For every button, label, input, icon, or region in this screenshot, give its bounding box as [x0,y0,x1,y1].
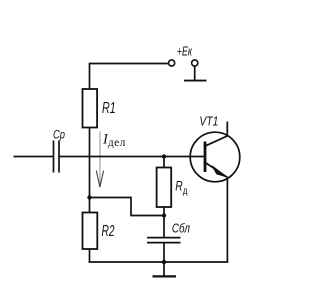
svg-text:Ср: Ср [53,128,65,141]
terminal circle: +Ek post [192,60,198,66]
wire: base wire from Cp to VT1 base [59,156,204,158]
capacitor Cbl bottom plate [147,242,181,244]
transistor VT1 base bar [204,142,207,173]
capacitor Cp right plate [58,141,60,173]
svg-text:R1: R1 [102,99,116,117]
+Ek post stem [194,66,196,80]
capacitor Cbl top plate [147,237,181,239]
wire: Cbl top lead [163,216,165,238]
junction: divider tap node [87,195,91,199]
wire: input lead to Cp [14,156,54,158]
wire: R1 top to +Ek terminal [90,64,169,90]
wire: R2 bottom to ground rail [89,249,91,262]
resistor R1 [83,89,98,128]
ground symbol bar [153,275,177,277]
resistor Rd [157,168,172,208]
transistor VT1 collector lead [206,122,228,146]
+Ek post bar [184,80,207,82]
svg-text:Сбл: Сбл [172,222,191,235]
wire: Rd top lead [163,157,165,168]
terminal circle: supply wire end [169,60,175,66]
transistor VT1 body [190,132,240,182]
wire: ground rail [89,261,229,263]
svg-text:R2: R2 [102,222,116,240]
resistor R2 [83,213,98,250]
junction: Rd / Cbl node [162,213,166,217]
capacitor Cp left plate [53,141,55,173]
junction: base wire to Rd [162,154,166,158]
svg-text:VT1: VT1 [199,116,218,129]
wire: divider tap to Rd/Cbl node [90,198,165,216]
svg-text:+Eк: +Eк [177,45,193,59]
current arrow Idel head [96,171,103,188]
junction: ground rail at Cbl [162,260,166,264]
transistor VT1 emitter lead [205,163,227,262]
ground symbol stem [163,262,165,276]
current arrow Idel shaft [99,132,101,187]
wire: divider chain R1 bottom to R2 top (crosses base wire, no junction) [89,128,91,213]
wire: Cbl bottom lead [163,243,165,262]
wire: Rd bottom lead [163,207,165,216]
transistor VT1 emitter arrow [212,166,226,177]
